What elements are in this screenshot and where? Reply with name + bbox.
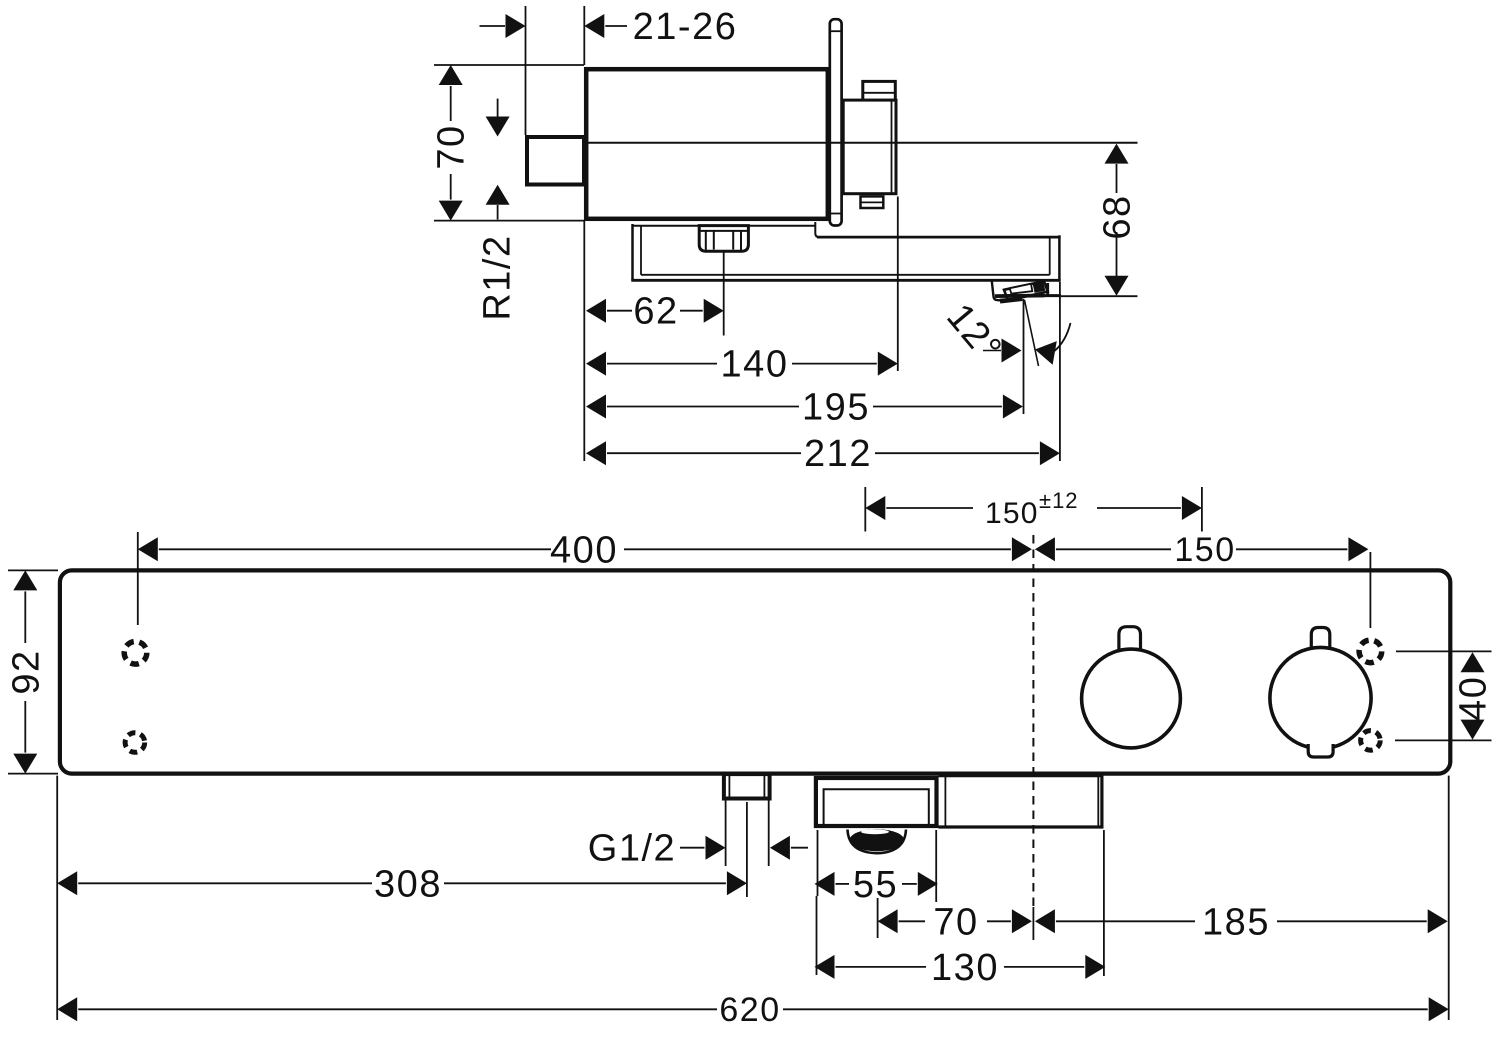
svg-text:130: 130 bbox=[931, 947, 999, 989]
knob 2 bottom tab bbox=[1308, 744, 1333, 757]
12 degree slanted line bbox=[1025, 300, 1039, 366]
12 degree angle arrows bbox=[983, 323, 1071, 365]
dimension 68 bbox=[1097, 144, 1139, 296]
label 12 degrees bbox=[938, 296, 1010, 370]
svg-text:21-26: 21-26 bbox=[633, 6, 738, 48]
main body front view bbox=[60, 570, 1450, 773]
wall flange plate bbox=[830, 19, 842, 225]
dimension 400 bbox=[138, 529, 1032, 625]
screw hole bottom left (dashed) bbox=[125, 733, 145, 753]
in-wall block bottom tab bbox=[861, 196, 884, 208]
R1/2 pointer arrows bbox=[486, 99, 510, 220]
svg-text:55: 55 bbox=[853, 864, 898, 906]
dimension 55 bbox=[815, 830, 938, 906]
dimension 150 (knob offset) bbox=[1035, 531, 1371, 628]
svg-text:150: 150 bbox=[985, 497, 1039, 530]
svg-text:140: 140 bbox=[721, 344, 789, 386]
svg-text:62: 62 bbox=[633, 291, 678, 333]
dimension 185 bbox=[1035, 901, 1448, 943]
G1/2 pipe below body bbox=[724, 774, 770, 798]
dimension 308 bbox=[57, 863, 747, 905]
spout nozzle side view bbox=[992, 281, 1061, 304]
svg-text:150: 150 bbox=[1174, 531, 1235, 569]
dimension 195 bbox=[586, 387, 1023, 429]
label R1/2 bbox=[477, 234, 519, 320]
left extension line bbox=[56, 776, 58, 1020]
pipe centre extension bbox=[746, 802, 748, 897]
svg-text:212: 212 bbox=[804, 433, 872, 475]
dimension 150 plus-minus 12 bbox=[865, 487, 1202, 532]
svg-text:±12: ±12 bbox=[1039, 488, 1079, 513]
hose outlet dome bbox=[848, 829, 907, 853]
svg-text:R1/2: R1/2 bbox=[477, 234, 519, 320]
svg-text:68: 68 bbox=[1097, 194, 1139, 239]
wall pipe stub R1/2 bbox=[527, 137, 584, 185]
centre line through body bbox=[584, 142, 1138, 144]
in-wall valve block bbox=[843, 100, 896, 194]
piece right extension bbox=[1103, 830, 1105, 976]
mixer body side view bbox=[586, 69, 828, 219]
drain centre extension bbox=[877, 898, 879, 938]
nut centre extension line bbox=[723, 252, 725, 336]
shelf slab side view bbox=[631, 222, 1060, 282]
right extension line bbox=[1448, 776, 1450, 1020]
screw hole bottom right (dashed) bbox=[1361, 731, 1381, 751]
knob 2 (volume handle) bbox=[1270, 647, 1371, 748]
knob 1 top tab bbox=[1119, 627, 1141, 650]
svg-text:195: 195 bbox=[802, 387, 870, 429]
side attachment piece bbox=[939, 776, 1104, 829]
screw hole top right (dashed) bbox=[1359, 640, 1382, 663]
svg-text:400: 400 bbox=[550, 529, 618, 571]
dimension 620 bbox=[57, 991, 1449, 1029]
svg-text:620: 620 bbox=[719, 991, 780, 1029]
svg-text:185: 185 bbox=[1202, 901, 1270, 943]
dimension 70 (bottom) bbox=[878, 901, 1032, 943]
dimension 40 bbox=[1395, 651, 1495, 740]
G1/2 label and arrows bbox=[588, 801, 808, 870]
knob 2 top tab bbox=[1311, 628, 1330, 651]
box left extension for 130 bbox=[816, 896, 818, 975]
extension line wall block bbox=[897, 197, 899, 372]
svg-text:308: 308 bbox=[374, 863, 442, 905]
extension line spout outlet bbox=[1023, 299, 1025, 414]
68 bottom reference line bbox=[1041, 295, 1138, 297]
dashed centre line bbox=[1032, 535, 1034, 940]
left extension line of lower dims bbox=[583, 221, 585, 461]
dimension 212 bbox=[586, 433, 1060, 475]
svg-text:70: 70 bbox=[431, 124, 473, 169]
svg-text:40: 40 bbox=[1453, 676, 1495, 721]
dimension 21-26 bbox=[480, 6, 738, 135]
svg-text:G1/2: G1/2 bbox=[588, 828, 676, 870]
dimension 70 (body height) bbox=[431, 65, 584, 221]
extension line shelf right edge bbox=[1059, 282, 1061, 461]
securing nut under body bbox=[699, 226, 748, 252]
dimension 92 bbox=[5, 570, 58, 773]
dimension 62 bbox=[586, 291, 724, 333]
hose connection box 55 bbox=[816, 778, 937, 826]
dimension 140 bbox=[586, 344, 898, 386]
dimension 130 bbox=[815, 947, 1106, 989]
in-wall block top tab bbox=[863, 81, 896, 100]
screw hole top left (dashed) bbox=[124, 642, 147, 665]
svg-text:92: 92 bbox=[5, 649, 47, 694]
svg-text:70: 70 bbox=[933, 901, 978, 943]
knob 1 (thermostat handle) bbox=[1082, 649, 1181, 748]
